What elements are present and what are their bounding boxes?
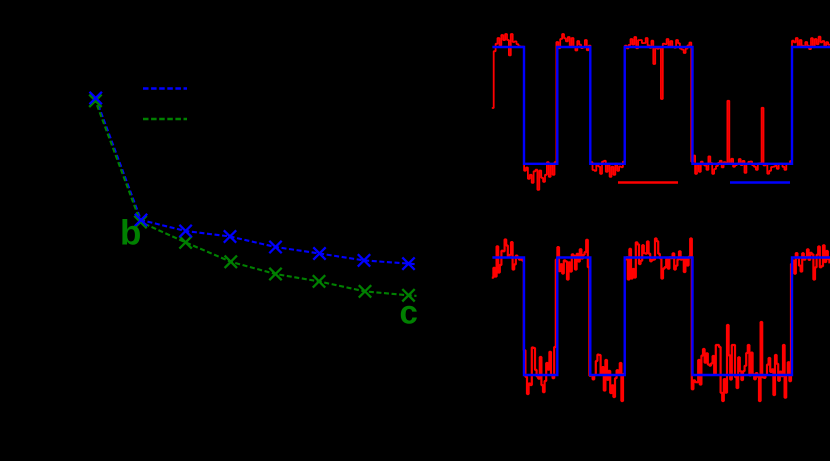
panel c: blue square wave xyxy=(492,258,830,376)
panel a legend: blue dashed sample xyxy=(143,87,187,90)
panel c: red noisy trace xyxy=(492,239,830,402)
panel b legend: red sample line xyxy=(618,181,678,184)
panel a: blue x markers xyxy=(90,92,415,270)
panel a legend: green dashed sample xyxy=(143,118,187,121)
panel a: green dashed curve xyxy=(95,101,416,296)
panel a: blue dashed curve xyxy=(96,98,416,264)
panel b: red noisy trace xyxy=(492,34,830,190)
svg-text:b: b xyxy=(120,214,141,253)
svg-text:c: c xyxy=(400,294,418,331)
panel b: blue square wave xyxy=(492,47,830,164)
panel b legend: blue sample line xyxy=(730,181,790,184)
panel a: green x markers xyxy=(89,95,415,302)
